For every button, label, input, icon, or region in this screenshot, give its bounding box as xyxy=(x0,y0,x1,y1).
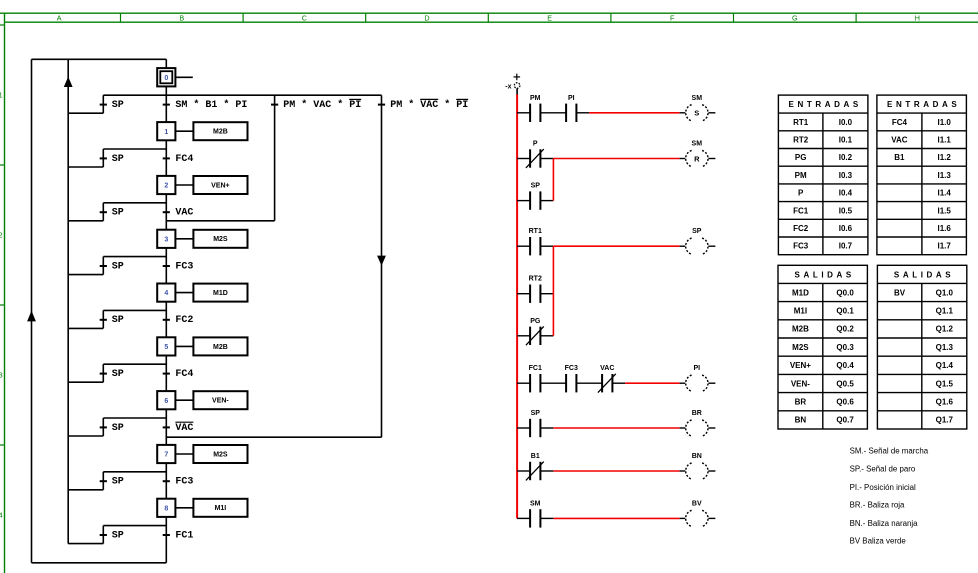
svg-text:SP: SP xyxy=(112,315,124,326)
svg-text:I0.0: I0.0 xyxy=(839,118,853,127)
svg-text:PI.- Posición inicial: PI.- Posición inicial xyxy=(850,483,916,492)
transition SP tick level 8 xyxy=(100,534,107,536)
frame column divider 3 xyxy=(365,13,367,22)
wire red rung y428 xyxy=(553,427,679,429)
arrow up on rail A xyxy=(27,311,36,322)
wire SP branch stub level 8 xyxy=(102,526,104,544)
frame row divider 2 xyxy=(0,164,5,166)
svg-text:6: 6 xyxy=(164,398,168,405)
svg-text:SM: SM xyxy=(530,500,541,507)
svg-text:SM.- Señal de marcha: SM.- Señal de marcha xyxy=(850,447,929,456)
svg-text:2: 2 xyxy=(0,231,3,240)
svg-text:-x: -x xyxy=(505,83,511,90)
svg-text:FC2: FC2 xyxy=(175,315,193,326)
svg-text:SP.- Señal de paro: SP.- Señal de paro xyxy=(850,465,916,474)
wire SP hook to rail level 0 xyxy=(68,112,103,114)
wire rail stub rung y335.8 xyxy=(517,335,530,337)
transition tick level 7 on trunk xyxy=(163,480,170,482)
svg-text:M1I: M1I xyxy=(215,505,227,512)
wire red rung y112.8 xyxy=(589,112,680,114)
frame row divider 3 xyxy=(0,304,5,306)
action box M1D (step 4) xyxy=(193,284,247,302)
coil BR xyxy=(680,420,716,436)
transition SP tick level 3 xyxy=(100,265,107,267)
svg-text:FC1: FC1 xyxy=(175,530,193,541)
svg-text:I1.6: I1.6 xyxy=(937,224,951,233)
svg-text:PI: PI xyxy=(568,95,575,102)
node -x power rail top circle xyxy=(514,83,520,89)
svg-text:H: H xyxy=(915,14,920,23)
wire branch PM*VAC*/PI vertical xyxy=(274,95,276,221)
wire step 8 to action xyxy=(175,507,193,509)
svg-text:SP: SP xyxy=(112,154,124,165)
wire black stub after contact y518.4 xyxy=(540,517,553,519)
overline /VAC branch 3 xyxy=(420,98,438,100)
svg-text:I0.4: I0.4 xyxy=(839,189,853,198)
coil SM xyxy=(680,105,716,121)
svg-text:BR.- Baliza roja: BR.- Baliza roja xyxy=(850,501,905,510)
svg-text:0: 0 xyxy=(164,75,168,82)
svg-text:Q1.2: Q1.2 xyxy=(936,325,954,334)
svg-text:SP: SP xyxy=(112,423,124,434)
wire red rung y246.2 xyxy=(553,245,679,247)
frame left border xyxy=(4,13,6,573)
wire black stub after contact y383.2 xyxy=(612,382,625,384)
wire SP hook to rail level 3 xyxy=(68,274,103,276)
svg-text:M2S: M2S xyxy=(213,451,228,458)
svg-text:FC4: FC4 xyxy=(175,154,193,165)
svg-text:FC1: FC1 xyxy=(793,206,809,215)
wire divergence line level 8 xyxy=(103,525,166,527)
wire rail stub rung y200.6 xyxy=(517,200,530,202)
transition tick branch 3 xyxy=(378,104,385,106)
svg-text:SALIDAS: SALIDAS xyxy=(894,270,954,279)
coil SP xyxy=(680,238,716,254)
svg-text:BR: BR xyxy=(795,398,807,407)
svg-text:FC4: FC4 xyxy=(892,118,908,127)
svg-text:SP: SP xyxy=(692,228,702,235)
wire between contacts PI xyxy=(540,112,566,114)
wire SP hook to rail level 8 xyxy=(68,543,103,545)
svg-text:SP: SP xyxy=(531,183,541,190)
wire divergence line level 0 xyxy=(103,94,381,96)
svg-text:Q1.3: Q1.3 xyxy=(936,343,954,352)
wire red branch P||SP xyxy=(552,159,554,201)
svg-text:I0.5: I0.5 xyxy=(839,206,853,215)
svg-text:SM: SM xyxy=(692,95,703,102)
svg-text:SP: SP xyxy=(112,261,124,272)
svg-text:I1.7: I1.7 xyxy=(937,242,951,251)
svg-text:3: 3 xyxy=(0,371,3,380)
svg-text:Q1.4: Q1.4 xyxy=(936,361,954,370)
transition tick level 0 on trunk xyxy=(163,104,170,106)
wire rail stub rung y112.8 xyxy=(517,112,530,114)
wire main trunk xyxy=(165,59,167,563)
wire divergence line level 4 xyxy=(103,309,166,311)
svg-text:PG: PG xyxy=(795,153,807,162)
svg-text:M1D: M1D xyxy=(792,288,809,297)
action box M1I (step 8) xyxy=(193,499,247,517)
transition SP tick level 7 xyxy=(100,480,107,482)
svg-text:ENTRADAS: ENTRADAS xyxy=(887,100,960,109)
transition tick level 3 on trunk xyxy=(163,265,170,267)
svg-text:ENTRADAS: ENTRADAS xyxy=(789,100,862,109)
svg-text:SP: SP xyxy=(112,530,124,541)
contact RT1 (NO) xyxy=(530,237,540,255)
svg-text:I1.3: I1.3 xyxy=(937,171,951,180)
contact VAC (NC) xyxy=(598,374,616,393)
svg-text:Q0.3: Q0.3 xyxy=(836,343,854,352)
svg-text:1: 1 xyxy=(0,91,3,100)
transition SP tick level 6 xyxy=(100,426,107,428)
frame column divider 1 xyxy=(120,13,122,22)
wire SP branch stub level 3 xyxy=(102,257,104,275)
svg-text:VEN+: VEN+ xyxy=(211,182,229,189)
contact RT2 (NO) xyxy=(530,285,540,303)
wire between contacts FC3 xyxy=(540,382,566,384)
contact B1 (NC) xyxy=(526,462,544,481)
wire bottom return line xyxy=(32,562,167,564)
svg-text:E: E xyxy=(547,14,552,23)
svg-text:FC1: FC1 xyxy=(529,365,542,372)
wire SP branch stub level 5 xyxy=(102,364,104,382)
svg-text:Q0.6: Q0.6 xyxy=(836,398,854,407)
contact SM (NO) xyxy=(530,509,540,527)
wire divergence line level 1 xyxy=(103,148,166,150)
step 5 xyxy=(157,337,175,355)
arrow up on rail B xyxy=(64,77,73,87)
svg-text:PG: PG xyxy=(530,318,541,325)
wire SP hook to rail level 5 xyxy=(68,381,103,383)
svg-text:SM: SM xyxy=(692,141,703,148)
svg-text:PM: PM xyxy=(795,171,807,180)
wire SP hook to rail level 4 xyxy=(68,327,103,329)
svg-text:M2B: M2B xyxy=(792,325,809,334)
svg-text:M2B: M2B xyxy=(213,344,228,351)
step 6 xyxy=(157,391,175,409)
table SALIDAS Q0 xyxy=(778,265,867,429)
svg-text:VAC: VAC xyxy=(891,135,908,144)
svg-text:B1: B1 xyxy=(531,453,540,460)
wire black stub after contact y335.8 xyxy=(540,335,553,337)
svg-text:SP: SP xyxy=(531,410,541,417)
svg-text:I1.0: I1.0 xyxy=(937,118,951,127)
svg-text:FC3: FC3 xyxy=(793,242,809,251)
svg-text:RT1: RT1 xyxy=(793,118,809,127)
overline /PI branch 3 xyxy=(456,98,468,100)
step 1 xyxy=(157,122,175,140)
step 7 xyxy=(157,445,175,463)
wire divergence line level 2 xyxy=(103,202,166,204)
wire black stub after contact y246.2 xyxy=(540,245,553,247)
transition tick level 1 on trunk xyxy=(163,157,170,159)
wire rail black stub below circle xyxy=(516,88,518,94)
transition tick level 2 on trunk xyxy=(163,211,170,213)
contact P (NC) xyxy=(526,149,544,168)
wire step 7 to action xyxy=(175,453,193,455)
coil PI xyxy=(680,375,716,391)
wire branch PM*VAC*/PI convergence line xyxy=(166,220,274,222)
wire rail stub rung y518.4 xyxy=(517,517,530,519)
svg-text:B1: B1 xyxy=(894,153,905,162)
table SALIDAS Q1 xyxy=(877,265,966,429)
transition SP tick level 4 xyxy=(100,319,107,321)
svg-text:P: P xyxy=(798,189,804,198)
svg-text:BN: BN xyxy=(692,453,702,460)
table ENTRADAS I1 xyxy=(877,95,967,255)
wire SP hook to rail level 6 xyxy=(68,435,103,437)
svg-text:BN: BN xyxy=(795,416,807,425)
wire return rail A (left) xyxy=(31,59,33,563)
svg-text:1: 1 xyxy=(164,129,168,136)
wire divergence line level 3 xyxy=(103,256,166,258)
svg-text:M2B: M2B xyxy=(213,129,228,136)
svg-text:BV: BV xyxy=(894,288,906,297)
svg-text:VEN-: VEN- xyxy=(791,379,810,388)
frame column divider 5 xyxy=(610,13,612,22)
wire SP branch stub level 2 xyxy=(102,203,104,221)
contact SP (NO) xyxy=(530,191,540,209)
wire step 1 to action xyxy=(175,130,193,132)
wire SP branch stub level 0 xyxy=(102,95,104,113)
coil SM xyxy=(680,150,716,166)
svg-text:SP: SP xyxy=(112,369,124,380)
frame column divider 4 xyxy=(487,13,489,22)
svg-text:A: A xyxy=(57,14,62,23)
wire red rung y383.2 xyxy=(625,382,680,384)
svg-text:Q1.1: Q1.1 xyxy=(936,307,954,316)
wire rail stub rung y158.5 xyxy=(517,158,530,160)
svg-text:VEN-: VEN- xyxy=(212,398,229,405)
action box M2B (step 1) xyxy=(193,122,247,140)
wire red rung y471 xyxy=(553,470,679,472)
frame column divider 7 xyxy=(855,13,857,22)
svg-text:RT2: RT2 xyxy=(793,135,809,144)
wire SP hook to rail level 2 xyxy=(68,220,103,222)
svg-text:Q0.4: Q0.4 xyxy=(836,361,854,370)
svg-text:SALIDAS: SALIDAS xyxy=(795,270,855,279)
svg-text:P: P xyxy=(533,141,538,148)
svg-text:M1I: M1I xyxy=(794,307,807,316)
svg-text:C: C xyxy=(302,14,307,23)
svg-text:I1.4: I1.4 xyxy=(937,189,951,198)
svg-text:I0.6: I0.6 xyxy=(839,224,853,233)
wire step 0 side dash xyxy=(175,76,192,78)
svg-text:Q1.5: Q1.5 xyxy=(936,379,954,388)
action box VEN+ (step 2) xyxy=(193,176,247,194)
table ENTRADAS I0 xyxy=(778,95,868,255)
step 8 xyxy=(157,499,175,517)
svg-text:F: F xyxy=(670,14,675,23)
label + above rail xyxy=(514,74,521,81)
wire divergence line level 5 xyxy=(103,363,166,365)
svg-text:SP: SP xyxy=(112,477,124,488)
svg-text:M2S: M2S xyxy=(792,343,809,352)
transition SP tick level 5 xyxy=(100,373,107,375)
wire branch PM*/VAC*/PI vertical xyxy=(381,95,383,437)
transition SP tick level 2 xyxy=(100,211,107,213)
svg-text:I1.1: I1.1 xyxy=(937,135,951,144)
svg-text:VAC: VAC xyxy=(175,208,193,219)
action box M2S (step 7) xyxy=(193,445,247,463)
svg-text:2: 2 xyxy=(164,183,168,190)
svg-text:PM * VAC * PI: PM * VAC * PI xyxy=(283,99,361,111)
svg-text:VEN+: VEN+ xyxy=(790,361,811,370)
svg-text:B: B xyxy=(179,14,184,23)
svg-text:FC4: FC4 xyxy=(175,369,193,380)
wire black stub after contact y471 xyxy=(540,470,553,472)
contact FC1 (NO) xyxy=(530,374,540,392)
wire branch PM*/VAC*/PI convergence line xyxy=(166,436,381,438)
svg-text:RT2: RT2 xyxy=(529,276,542,283)
step 4 xyxy=(157,284,175,302)
wire divergence line level 7 xyxy=(103,471,166,473)
svg-text:3: 3 xyxy=(164,236,168,243)
svg-text:PI: PI xyxy=(693,365,700,372)
wire step 2 to action xyxy=(175,184,193,186)
transition tick level 8 on trunk xyxy=(163,534,170,536)
step 3 xyxy=(157,230,175,248)
frame top border xyxy=(0,12,978,14)
step 2 xyxy=(157,176,175,194)
wire SP hook to rail level 7 xyxy=(68,489,103,491)
svg-text:7: 7 xyxy=(164,452,168,459)
svg-text:R: R xyxy=(694,154,700,163)
svg-text:5: 5 xyxy=(164,344,168,351)
svg-text:M1D: M1D xyxy=(213,290,228,297)
wire black stub after contact y428 xyxy=(540,427,553,429)
contact FC3 (NO) xyxy=(566,374,576,392)
wire between contacts VAC xyxy=(576,382,602,384)
svg-text:FC2: FC2 xyxy=(793,224,809,233)
wire red rung y518.4 xyxy=(553,517,679,519)
svg-text:Q1.6: Q1.6 xyxy=(936,398,954,407)
svg-text:Q0.7: Q0.7 xyxy=(836,416,854,425)
contact PM (NO) xyxy=(530,104,540,122)
wire SP branch stub level 4 xyxy=(102,310,104,328)
wire SP branch stub level 6 xyxy=(102,418,104,436)
frame column divider 6 xyxy=(733,13,735,22)
svg-text:BV Baliza verde: BV Baliza verde xyxy=(850,537,907,546)
wire return rail B xyxy=(67,59,69,543)
frame row divider 4 xyxy=(0,444,5,446)
wire rail stub rung y246.2 xyxy=(517,245,530,247)
wire rail stub rung y428 xyxy=(517,427,530,429)
wire step 4 to action xyxy=(175,292,193,294)
step 0 (initial step) xyxy=(157,68,175,86)
wire step 3 to action xyxy=(175,238,193,240)
coil BN xyxy=(680,463,716,479)
wire rail stub rung y383.2 xyxy=(517,382,530,384)
transition tick level 6 on trunk xyxy=(163,426,170,428)
wire step 6 to action xyxy=(175,399,193,401)
svg-text:Q1.0: Q1.0 xyxy=(936,288,954,297)
svg-text:SP: SP xyxy=(112,100,124,111)
svg-text:Q0.5: Q0.5 xyxy=(836,379,854,388)
svg-text:FC3: FC3 xyxy=(175,477,193,488)
action box M2B (step 5) xyxy=(193,337,247,355)
action box VEN- (step 6) xyxy=(193,391,247,409)
svg-text:S: S xyxy=(694,109,699,118)
svg-text:FC3: FC3 xyxy=(175,261,193,272)
svg-text:4: 4 xyxy=(0,511,3,520)
wire SP branch stub level 7 xyxy=(102,472,104,490)
svg-text:I1.5: I1.5 xyxy=(937,206,951,215)
wire power rail (red) xyxy=(516,95,518,519)
svg-text:BV: BV xyxy=(692,500,702,507)
contact SP (NO) xyxy=(530,419,540,437)
svg-text:I0.1: I0.1 xyxy=(839,135,853,144)
svg-text:PM * VAC * PI: PM * VAC * PI xyxy=(390,99,468,111)
svg-text:VAC: VAC xyxy=(600,365,614,372)
wire rail stub rung y471 xyxy=(517,470,530,472)
svg-text:VAC: VAC xyxy=(175,423,193,434)
svg-text:SM * B1 * PI: SM * B1 * PI xyxy=(175,99,247,111)
wire step 5 to action xyxy=(175,345,193,347)
frame column divider 2 xyxy=(242,13,244,22)
transition SP tick level 0 xyxy=(100,104,107,106)
svg-text:4: 4 xyxy=(164,290,168,297)
wire rail stub rung y293.7 xyxy=(517,293,530,295)
svg-text:I0.7: I0.7 xyxy=(839,242,853,251)
svg-text:D: D xyxy=(424,14,429,23)
svg-text:I0.2: I0.2 xyxy=(839,153,853,162)
wire top return line xyxy=(32,58,167,60)
wire red rung y158.5 xyxy=(553,158,679,160)
wire red branch RT1||RT2||PG xyxy=(552,246,554,336)
svg-text:Q1.7: Q1.7 xyxy=(936,416,954,425)
action box M2S (step 3) xyxy=(193,230,247,248)
wire black stub after contact y158.5 xyxy=(540,158,553,160)
svg-text:M2S: M2S xyxy=(213,236,228,243)
transition tick branch 2 xyxy=(271,104,278,106)
svg-text:RT1: RT1 xyxy=(529,228,542,235)
transition SP tick level 1 xyxy=(100,157,107,159)
wire SP branch stub level 1 xyxy=(102,149,104,167)
wire black stub after contact y200.6 xyxy=(540,200,553,202)
overline for /VAC xyxy=(175,421,193,423)
wire SP hook to rail level 1 xyxy=(68,166,103,168)
svg-text:I1.2: I1.2 xyxy=(937,153,951,162)
overline /PI branch 2 xyxy=(349,98,361,100)
coil BV xyxy=(680,510,716,526)
svg-text:SP: SP xyxy=(112,208,124,219)
transition tick level 4 on trunk xyxy=(163,319,170,321)
arrow down on branch PM*/VAC*/PI xyxy=(377,256,386,266)
svg-text:FC3: FC3 xyxy=(565,365,578,372)
contact PI (NO) xyxy=(566,104,576,122)
contact PG (NC) xyxy=(526,326,544,345)
frame column band bottom border xyxy=(5,21,978,23)
svg-text:Q0.0: Q0.0 xyxy=(836,288,854,297)
wire divergence line level 6 xyxy=(103,417,166,419)
svg-text:BR: BR xyxy=(692,410,702,417)
frame row divider 1 xyxy=(0,24,5,26)
svg-text:Q0.2: Q0.2 xyxy=(836,325,854,334)
svg-text:BN.- Baliza naranja: BN.- Baliza naranja xyxy=(850,519,919,528)
transition tick level 5 on trunk xyxy=(163,373,170,375)
svg-text:8: 8 xyxy=(164,505,168,512)
wire black stub after contact y112.8 xyxy=(576,112,589,114)
svg-text:G: G xyxy=(792,14,798,23)
svg-text:PM: PM xyxy=(530,95,541,102)
wire black stub after contact y293.7 xyxy=(540,293,553,295)
svg-text:I0.3: I0.3 xyxy=(839,171,853,180)
svg-text:Q0.1: Q0.1 xyxy=(836,307,854,316)
